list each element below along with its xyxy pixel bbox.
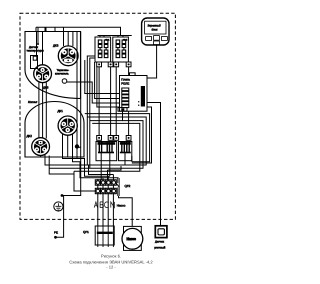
svg-text:Термовы-: Термовы- bbox=[57, 69, 70, 72]
wire bus rail 2 bbox=[98, 35, 132, 37]
breaker QF2 bbox=[116, 178, 119, 196]
pump bbox=[122, 226, 143, 250]
wire QF2 to pump bbox=[119, 196, 133, 226]
wires KM tops to rail bbox=[100, 36, 123, 38]
wire junction drop bbox=[76, 147, 78, 159]
svg-text:КМ1: КМ1 bbox=[105, 39, 109, 42]
wire KM terminals to heater terminals bbox=[99, 67, 116, 136]
heater terminal b bbox=[108, 136, 113, 141]
wire PE to ground point bbox=[56, 196, 64, 238]
wire PE drop bbox=[62, 32, 81, 196]
heater terminal d bbox=[126, 136, 131, 141]
wire staple 2 bbox=[46, 27, 55, 31]
node junction bbox=[75, 144, 79, 148]
earth terminal PE bbox=[54, 202, 63, 211]
enclosure dashed boundary bbox=[20, 13, 175, 219]
outdoor sensor bbox=[155, 226, 167, 238]
wire display to relay board bbox=[147, 45, 157, 78]
wire DK2 stub bbox=[67, 135, 69, 157]
wires below relay board bbox=[85, 114, 150, 162]
svg-text:QF2: QF2 bbox=[125, 185, 131, 189]
connector ДК2 bbox=[32, 138, 50, 156]
node temp sensor wire end bbox=[37, 43, 39, 45]
terminal below KM2 b bbox=[126, 62, 131, 67]
wire mid 2 bbox=[95, 62, 120, 99]
svg-text:Котел: Котел bbox=[28, 101, 38, 105]
wire cascade 3 bbox=[45, 155, 125, 175]
svg-text:ключатель: ключатель bbox=[55, 72, 69, 75]
thermal cutout terminal bbox=[62, 79, 67, 84]
svg-text:ДК1: ДК1 bbox=[58, 110, 64, 114]
wire bundle mid verticals bbox=[85, 60, 120, 94]
svg-text:Рисунок 6.: Рисунок 6. bbox=[101, 254, 121, 259]
wire board bottom to heater terminal d bbox=[128, 111, 130, 135]
label phase A bbox=[94, 202, 97, 208]
relay board bottom connector bbox=[118, 108, 127, 112]
wire staple 1 bbox=[36, 27, 45, 31]
wire relay board to outdoor sensor bbox=[147, 103, 161, 227]
label phase C bbox=[104, 202, 108, 208]
terminal below KM1 a bbox=[97, 62, 102, 67]
svg-text:QF1: QF1 bbox=[83, 231, 89, 235]
wire DK2 bottom stub bbox=[40, 156, 42, 158]
upper panel outline bbox=[25, 32, 81, 99]
wire KM2 right terminal stub bbox=[128, 67, 130, 76]
wires DK6 to DK2 bbox=[39, 83, 46, 139]
heater terminal c bbox=[114, 136, 119, 141]
boiler panel (Котел) outline bbox=[25, 102, 84, 158]
terminal below KM2 a bbox=[114, 62, 119, 67]
wires bus to DK3 bbox=[64, 27, 73, 46]
connector ДК6 bbox=[34, 65, 52, 83]
wire mid 3 bbox=[97, 67, 120, 107]
svg-text:КМ2: КМ2 bbox=[123, 39, 127, 42]
terminal strip row 1 bbox=[95, 180, 116, 185]
svg-text:ДК2: ДК2 bbox=[27, 135, 33, 139]
svg-text:Плата: Плата bbox=[121, 78, 130, 82]
contactor КМ1 bbox=[95, 37, 111, 62]
wire terminal links bbox=[98, 185, 114, 188]
wire KM1 left leads bbox=[87, 56, 95, 168]
svg-text:Насос: Насос bbox=[127, 237, 136, 241]
wire top bus bbox=[36, 27, 121, 35]
svg-text:PE: PE bbox=[54, 231, 58, 235]
terminal strip row 2 bbox=[95, 188, 116, 193]
heater block 1 bbox=[96, 142, 117, 161]
display unit bbox=[142, 18, 169, 45]
svg-text:Насос: Насос bbox=[117, 204, 126, 208]
terminal below KM1 b bbox=[108, 62, 113, 67]
wire junction tick bbox=[77, 146, 81, 148]
heater block 2 bbox=[119, 142, 132, 161]
svg-text:Датчик: Датчик bbox=[155, 241, 164, 244]
breaker QF1 bbox=[95, 226, 114, 247]
wire below board 3 bbox=[49, 121, 143, 169]
svg-text:ДК3: ДК3 bbox=[53, 44, 59, 48]
svg-text:температуры: температуры bbox=[27, 49, 44, 52]
contactor КМ2 bbox=[113, 37, 129, 62]
wire board connector drop bbox=[122, 111, 124, 120]
wire cascade 1 bbox=[63, 134, 110, 176]
wire to temperature sensor bbox=[37, 27, 39, 43]
heater terminal a bbox=[97, 136, 102, 141]
wire below board 2 bbox=[87, 117, 146, 165]
wire relay board lower right bbox=[132, 107, 152, 163]
node PE end bbox=[54, 236, 57, 239]
wire below board 4 bbox=[74, 123, 140, 171]
svg-text:блок: блок bbox=[152, 28, 158, 32]
node PE junction bbox=[61, 194, 64, 197]
wire cascade 2 bbox=[73, 134, 119, 178]
label phase B bbox=[100, 202, 103, 208]
wire bundle right of DK3 bbox=[76, 32, 78, 147]
wires bus to DK6 bbox=[37, 32, 43, 66]
temperature sensor probe bbox=[31, 56, 38, 69]
connector ДК3 bbox=[58, 46, 78, 66]
svg-text:Экранный: Экранный bbox=[148, 24, 161, 28]
svg-text:уличный: уличный bbox=[154, 246, 165, 250]
relay board (Плата РЕЛЕ) bbox=[120, 73, 148, 111]
wire thermal cutout to relay board bbox=[67, 82, 120, 103]
label N bbox=[111, 202, 115, 208]
wire cascade 4 bbox=[49, 156, 95, 192]
svg-text:- 12 -: - 12 - bbox=[106, 265, 116, 270]
wires terminal to QF1 bbox=[98, 193, 114, 226]
connector ДК1 bbox=[58, 116, 77, 135]
wire heater block outputs down bbox=[98, 156, 132, 180]
svg-text:РЕЛЕ: РЕЛЕ bbox=[121, 82, 129, 86]
